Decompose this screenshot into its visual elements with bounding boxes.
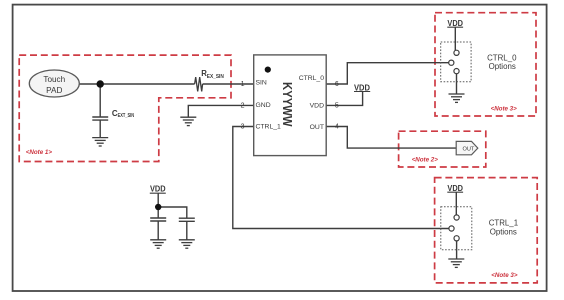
svg-text:KYYWW: KYYWW (280, 82, 294, 127)
svg-text:5: 5 (335, 103, 339, 110)
svg-text:PAD: PAD (46, 86, 62, 95)
svg-text:OUT: OUT (462, 146, 474, 152)
svg-text:<Note 3>: <Note 3> (491, 105, 518, 112)
svg-text:4: 4 (335, 124, 339, 131)
svg-text:CTRL_1: CTRL_1 (489, 219, 518, 228)
svg-text:SIN: SIN (256, 79, 267, 86)
svg-text:1: 1 (241, 81, 245, 88)
svg-text:OUT: OUT (310, 124, 324, 131)
svg-text:Options: Options (489, 62, 516, 71)
svg-text:3: 3 (241, 124, 245, 131)
svg-text:2: 2 (241, 103, 245, 110)
svg-text:CTRL_0: CTRL_0 (299, 75, 325, 82)
svg-text:EX_SIN: EX_SIN (207, 74, 224, 80)
svg-text:6: 6 (335, 81, 339, 88)
svg-text:<Note 3>: <Note 3> (491, 272, 518, 279)
svg-text:VDD: VDD (447, 19, 463, 28)
svg-text:Touch: Touch (43, 75, 65, 84)
svg-text:<Note 1>: <Note 1> (26, 149, 53, 156)
svg-text:Options: Options (490, 227, 517, 236)
svg-text:<Note 2>: <Note 2> (412, 156, 439, 163)
svg-text:VDD: VDD (150, 185, 166, 194)
svg-text:CTRL_1: CTRL_1 (256, 124, 282, 131)
svg-text:CTRL_0: CTRL_0 (487, 53, 517, 62)
svg-text:VDD: VDD (310, 103, 324, 110)
svg-text:GND: GND (256, 102, 271, 109)
svg-text:EXT_SIN: EXT_SIN (118, 113, 135, 119)
